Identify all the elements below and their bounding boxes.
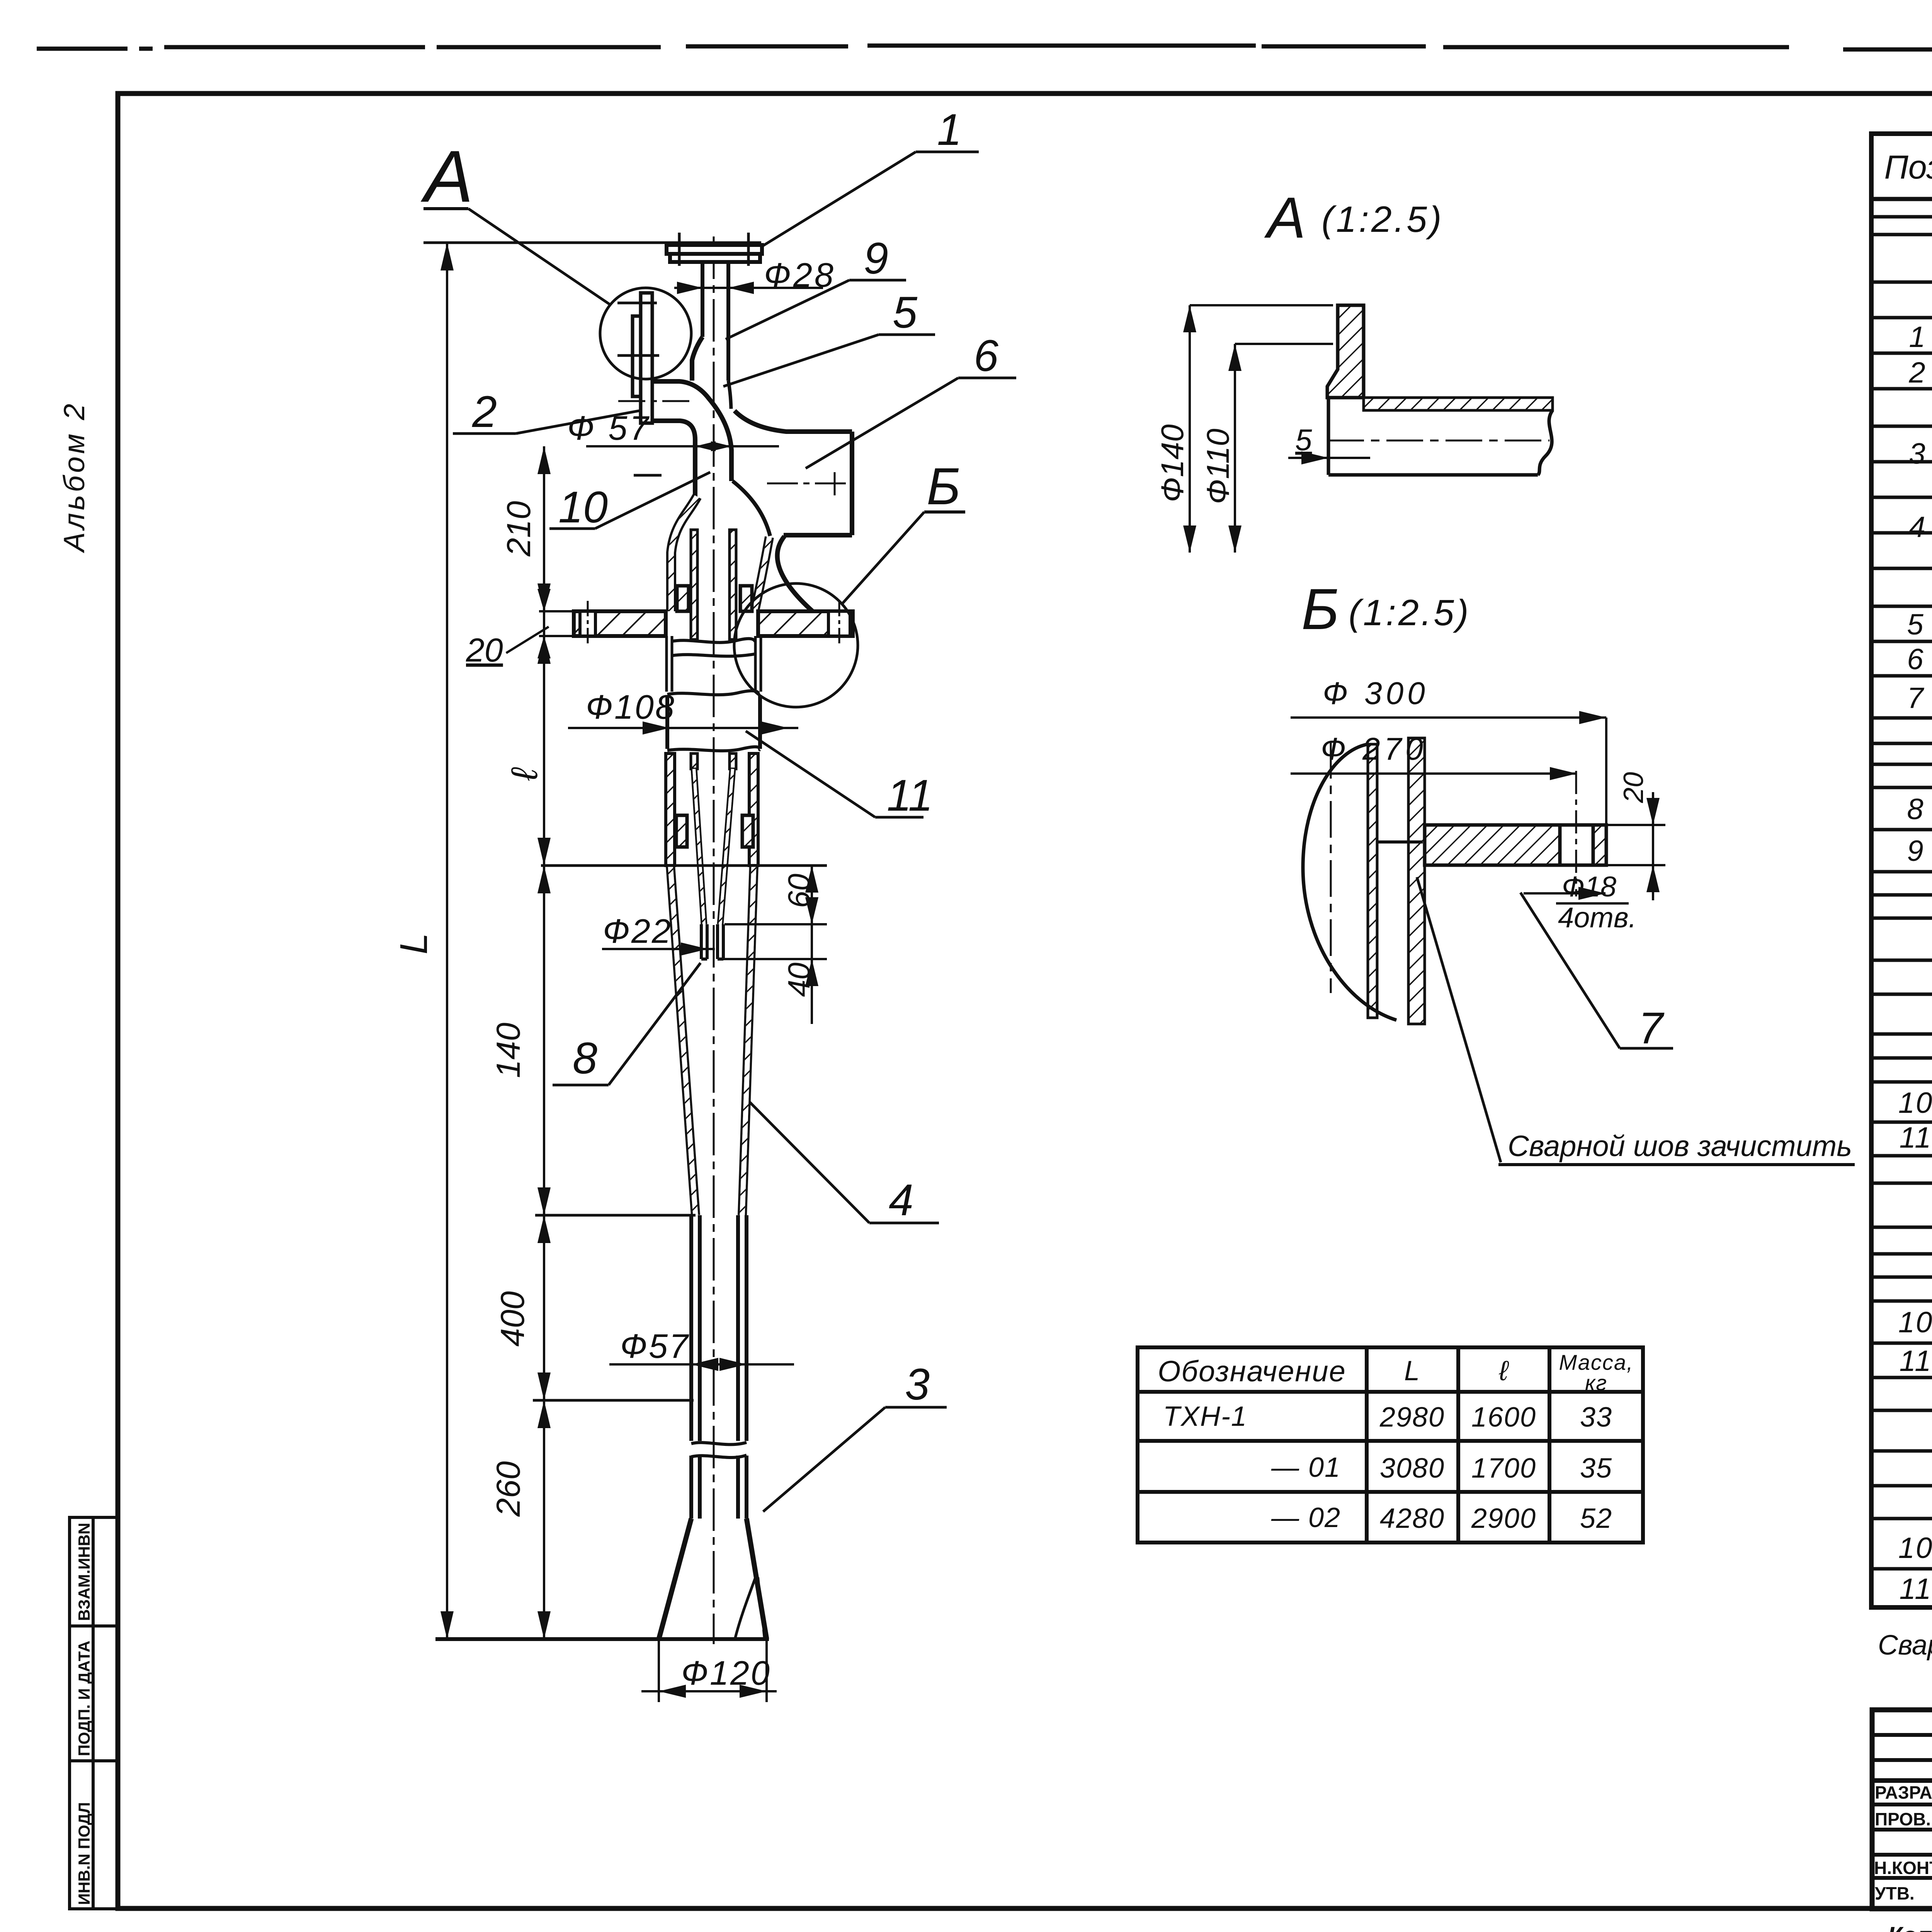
variants table (Обозначение / L / l / Масса): [1138, 1347, 1643, 1543]
reference line at cone start: [541, 864, 827, 867]
svg-text:Сварные швы по ГОСТ 5264-80, Г: Сварные швы по ГОСТ 5264-80, ГОСТ 16037 …: [1878, 1630, 1932, 1661]
outlet bell (item 3): [659, 1519, 767, 1639]
top reference line: [423, 241, 761, 244]
inner pipe walls resume below break: [691, 753, 697, 769]
svg-text:Ф108: Ф108: [586, 688, 676, 726]
detail Б: dim Ф270: [1291, 772, 1577, 775]
svg-text:33: 33: [1580, 1402, 1612, 1433]
svg-text:4: 4: [1909, 511, 1926, 544]
detail Б: dim Ф300: [1291, 718, 1606, 825]
dim Ф108: [568, 727, 798, 729]
title block texts: [1874, 1782, 1932, 1903]
svg-text:А: А: [1264, 185, 1306, 250]
detail A: flange face and pipe bottom outline: [1328, 398, 1553, 475]
dim Ф57 (bottom): [609, 1363, 794, 1366]
dim 20 (flange) with leader: [539, 610, 575, 612]
svg-text:3: 3: [905, 1360, 930, 1409]
svg-text:Поз.: Поз.: [1884, 149, 1932, 186]
inner pipe break squiggle below flange: [671, 639, 756, 643]
svg-text:5: 5: [893, 288, 918, 337]
svg-text:ВЗАМ.ИНВN: ВЗАМ.ИНВN: [75, 1523, 93, 1621]
elbow 57x3 (item 5) outline: [652, 337, 731, 497]
svg-text:11: 11: [887, 771, 933, 820]
outlet bend 108x4 (item 6) outline: [735, 411, 852, 611]
svg-text:3: 3: [1909, 437, 1926, 470]
svg-text:Ф 57: Ф 57: [567, 409, 651, 447]
svg-text:9: 9: [1907, 835, 1924, 867]
svg-text:(1:2.5): (1:2.5): [1349, 592, 1471, 633]
straight pipe 57x3 below cone: [691, 1215, 747, 1519]
svg-text:РАЗРАБ.: РАЗРАБ.: [1875, 1782, 1932, 1803]
svg-text:210: 210: [500, 501, 537, 557]
svg-text:— 02: — 02: [1271, 1502, 1341, 1533]
detail circle Б: [734, 583, 858, 707]
svg-text:35: 35: [1580, 1453, 1612, 1484]
svg-text:11: 11: [1900, 1573, 1932, 1605]
svg-text:Обозначение: Обозначение: [1158, 1355, 1346, 1388]
dim 40: [723, 958, 827, 960]
dim Ф22: [602, 948, 715, 950]
svg-text:Б: Б: [927, 457, 961, 515]
svg-text:6: 6: [1907, 643, 1924, 676]
table header texts: [1884, 139, 1932, 200]
svg-text:20: 20: [1618, 772, 1649, 803]
flange bolts: [580, 611, 595, 636]
svg-text:10: 10: [1898, 1532, 1932, 1565]
svg-text:3080: 3080: [1380, 1453, 1445, 1484]
bell weld seam sliver: [735, 1577, 756, 1638]
detail Б: flange plate with bolt hole (hatched): [1425, 825, 1560, 865]
svg-text:ТХН-1: ТХН-1: [1163, 1401, 1247, 1432]
inner dimension chain line: [543, 446, 545, 1639]
outlet centreline: [767, 483, 854, 485]
detail Б: pipe wall bands (vertical, hatched): [1368, 744, 1377, 1018]
svg-text:4280: 4280: [1380, 1503, 1445, 1534]
svg-text:11: 11: [1900, 1345, 1932, 1378]
dim 60: [724, 923, 827, 925]
svg-text:ПРОВ.: ПРОВ.: [1875, 1809, 1931, 1829]
detail Б: bolt hole axis: [1575, 771, 1577, 896]
svg-text:Копировал: Аргинова: Копировал: Аргинова: [1888, 1922, 1932, 1932]
svg-text:L: L: [392, 933, 435, 954]
svg-text:Ф28: Ф28: [764, 256, 836, 294]
converging cone 108-57 (item 4) hatched bands: [670, 866, 754, 1215]
chamber walls 108x4 (item 11) hatched bands: [666, 753, 675, 866]
lower break squiggle: [667, 747, 760, 751]
mid flange pair (hatched bars): [574, 611, 666, 636]
dim Ф28: [674, 287, 823, 289]
pipe break squiggles: [691, 1442, 747, 1444]
svg-text:40: 40: [782, 963, 816, 997]
svg-text:10: 10: [1898, 1306, 1932, 1339]
inner pipe 57x3 (item 10) walls above flange (hatched bands): [691, 530, 697, 639]
svg-text:кг: кг: [1585, 1371, 1607, 1395]
left sidebar stamp boxes: [70, 1517, 117, 1909]
svg-text:Н.КОНТР: Н.КОНТР: [1874, 1858, 1932, 1878]
top flange (item 1) plates: [667, 245, 762, 262]
detail A: dim Ф140: [1190, 305, 1333, 553]
table body texts: [1898, 244, 1932, 1605]
svg-text:140: 140: [490, 1022, 527, 1078]
svg-text:(1:2.5): (1:2.5): [1321, 199, 1444, 240]
svg-text:7: 7: [1907, 682, 1924, 714]
main vertical centreline: [713, 236, 715, 1644]
title block grid: [1872, 1710, 1932, 1909]
svg-text:ℓ: ℓ: [504, 767, 545, 781]
dim l (variable): [537, 636, 551, 664]
svg-text:Альбом 2: Альбом 2: [58, 401, 91, 553]
svg-text:Ф110: Ф110: [1201, 429, 1236, 504]
dim Ф120: [658, 1640, 660, 1702]
svg-text:Ф18: Ф18: [1562, 871, 1616, 903]
detail Б: pipe break bulge (left): [1303, 744, 1396, 1020]
chamber break squiggle above label zone: [667, 691, 760, 695]
dim 210: [537, 446, 551, 474]
lower support blocks (item 7): [676, 815, 687, 847]
svg-text:2980: 2980: [1379, 1402, 1445, 1433]
svg-text:10: 10: [1898, 1087, 1932, 1119]
svg-text:260: 260: [490, 1461, 527, 1517]
svg-text:1: 1: [1909, 321, 1926, 354]
svg-text:2: 2: [472, 387, 497, 437]
reference line above bell: [533, 1399, 694, 1402]
svg-text:ℓ: ℓ: [1498, 1355, 1509, 1386]
nozzle cone of inner pipe (item 10 to item 8): [694, 769, 733, 924]
svg-text:5: 5: [1907, 608, 1924, 641]
svg-text:— 01: — 01: [1271, 1452, 1341, 1483]
inlet stub centreline: [618, 400, 694, 402]
svg-text:2: 2: [1908, 356, 1926, 389]
svg-text:11: 11: [1900, 1121, 1932, 1154]
dim Ф57 (top): [586, 445, 779, 447]
top flange bolt lines: [679, 233, 748, 266]
svg-text:Ф 300: Ф 300: [1323, 676, 1429, 711]
svg-text:2900: 2900: [1471, 1503, 1536, 1534]
svg-text:Ф140: Ф140: [1155, 424, 1190, 502]
svg-text:4: 4: [889, 1175, 913, 1225]
svg-text:4отв.: 4отв.: [1558, 901, 1636, 934]
svg-text:9: 9: [864, 234, 888, 283]
svg-text:УТВ.: УТВ.: [1875, 1883, 1915, 1903]
mixing head dome right wall (hatched band): [733, 481, 770, 536]
bottom reference line: [435, 1637, 769, 1641]
overall dim L: [446, 243, 448, 1639]
top dashed separator line: [37, 46, 1932, 49]
detail A: pipe centreline: [1327, 440, 1549, 442]
detail A: flange cross-section (hatched): [1327, 305, 1364, 398]
mixing head dome left wall (hatched band): [671, 497, 697, 611]
svg-text:ПОДП. И ДАТА: ПОДП. И ДАТА: [75, 1641, 93, 1756]
dim 260: [537, 1400, 551, 1428]
detail circle А: [600, 288, 691, 379]
svg-text:Сварной шов зачистить: Сварной шов зачистить: [1508, 1130, 1852, 1163]
svg-text:8: 8: [1907, 793, 1924, 826]
svg-text:L: L: [1404, 1355, 1420, 1386]
detail Б: dim 20 (flange thickness): [1606, 792, 1665, 900]
detail A: dim Ф110: [1235, 344, 1333, 553]
svg-text:Ф57: Ф57: [620, 1327, 690, 1365]
clean pipe segment (Ф108 label zone) outer lines: [667, 696, 760, 749]
svg-text:Ф 270: Ф 270: [1321, 731, 1427, 767]
svg-text:Ф120: Ф120: [681, 1654, 771, 1692]
reference line at cone end: [535, 1214, 696, 1217]
svg-text:ИНВ.N ПОДЛ: ИНВ.N ПОДЛ: [75, 1802, 93, 1905]
detail Б: dim Ф18 / 4отв: [1524, 892, 1605, 895]
svg-text:7: 7: [1638, 1003, 1665, 1053]
dim 140: [537, 866, 551, 893]
upper support blocks (item 7): [677, 586, 689, 611]
svg-text:5: 5: [1295, 423, 1312, 457]
svg-text:1600: 1600: [1471, 1402, 1536, 1433]
chamber walls below flange (plain): [667, 636, 761, 692]
svg-text:1700: 1700: [1471, 1453, 1536, 1484]
detail Б: pipe axis centreline: [1330, 742, 1332, 993]
svg-text:Ф22: Ф22: [603, 912, 672, 950]
svg-text:400: 400: [494, 1291, 531, 1347]
svg-text:20: 20: [466, 632, 503, 669]
svg-text:Б: Б: [1301, 577, 1339, 641]
parts list table grid: [1871, 134, 1932, 1607]
svg-text:8: 8: [573, 1034, 597, 1083]
svg-text:А: А: [420, 136, 473, 218]
detail A: pipe wall strip (hatched): [1364, 398, 1553, 410]
svg-text:6: 6: [974, 331, 998, 381]
steam pipe 28x1.4 (item 9): [702, 262, 728, 381]
svg-text:52: 52: [1580, 1503, 1612, 1534]
inlet flange pair (item 2): [633, 293, 652, 423]
svg-text:1: 1: [937, 105, 962, 155]
dim 400: [537, 1215, 551, 1243]
nozzle throat tube Ф22 (item 8): [701, 924, 723, 959]
